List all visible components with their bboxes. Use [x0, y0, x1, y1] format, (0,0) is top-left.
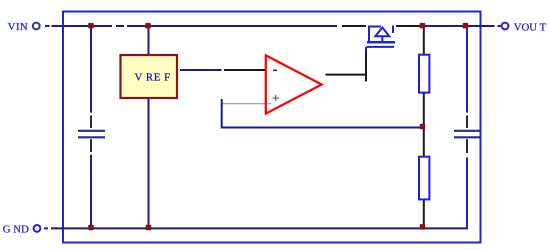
svg-text:VIN: VIN	[8, 21, 29, 33]
svg-text:V RE F: V RE F	[135, 71, 171, 83]
svg-text:G ND: G ND	[3, 224, 29, 236]
svg-text:VOU T: VOU T	[514, 21, 547, 33]
